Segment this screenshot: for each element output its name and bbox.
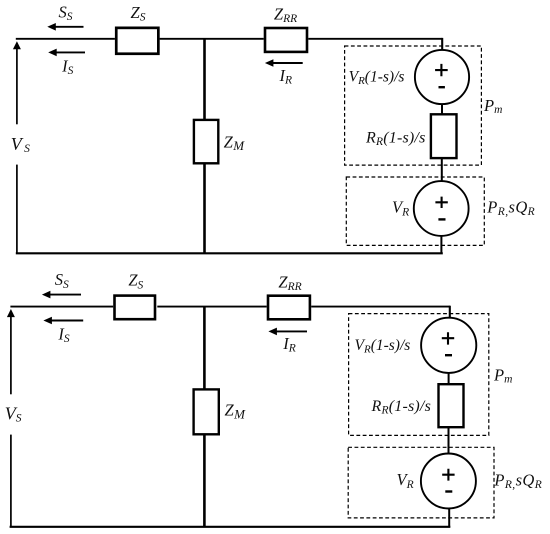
source plus sign (circuit 1 upper) [435,64,448,76]
dashed box P_R,sQ_R (circuit 1) [346,177,484,245]
wire top bus segment right (circuit 1) [308,38,442,40]
resistor R_R(1-s)/s box (circuit 1) [431,114,457,158]
impedance Z_M box (circuit 1) [194,120,218,163]
impedance Z_S box (circuit 1) [116,28,158,54]
wire top bus segment left (circuit 2) [10,306,113,308]
svg-text:VR(1-s)/s: VR(1-s)/s [349,68,405,87]
dashed box P_m (circuit 1) [345,46,482,165]
arrow S_S (circuit 1) [47,23,83,31]
source V_S arrow (circuit 2) [7,309,15,394]
impedance Z_RR box (circuit 2) [268,296,310,320]
arrow I_R (circuit 2) [268,328,307,336]
wire magnetizing branch lower (circuit 2) [203,435,206,527]
wire bottom bus (circuit 1) [16,252,443,254]
wire top bus segment left (circuit 1) [16,38,115,40]
wire resistor to source V_R (circuit 1) [441,159,443,182]
source plus sign (circuit 2 upper) [442,332,454,344]
wire magnetizing branch upper (circuit 2) [203,307,206,390]
source minus sign (circuit 1 upper) [439,86,445,88]
resistor R_R(1-s)/s box (circuit 2) [439,384,464,427]
impedance Z_S box (circuit 2) [115,296,156,320]
wire corner drop to source (circuit 1) [441,38,443,51]
impedance Z_RR box (circuit 1) [265,28,307,52]
wire source V_R to bottom bus (circuit 2) [448,509,450,528]
wire source to resistor (circuit 2) [448,373,450,385]
wire source to resistor (circuit 1) [441,104,443,114]
source minus sign (circuit 1 lower) [438,218,445,220]
wire magnetizing branch lower (circuit 1) [203,164,206,253]
svg-text:RR(1-s)/s: RR(1-s)/s [365,129,426,148]
arrow I_S (circuit 2) [43,317,83,325]
wire bottom bus (circuit 2) [10,526,451,528]
source V_S arrow (circuit 1) [13,41,21,124]
wire source V_R to bottom bus (circuit 1) [440,236,442,254]
wire left branch lower (circuit 2) [10,435,12,527]
source minus sign (circuit 2 upper) [445,354,452,356]
wire left branch lower (circuit 1) [16,165,18,254]
arrow S_S (circuit 2) [42,291,81,299]
wire top bus segment middle (circuit 2) [157,306,266,308]
source plus sign (circuit 2 lower) [442,469,454,481]
source minus sign (circuit 2 lower) [445,490,452,492]
source V_R circle (circuit 2) [421,454,476,509]
dashed box P_m (circuit 2) [349,314,489,436]
arrow I_S (circuit 1) [48,49,85,57]
dashed box P_R,sQ_R (circuit 2) [348,447,494,518]
arrow I_R (circuit 1) [265,59,303,67]
svg-text:RR(1-s)/s: RR(1-s)/s [371,398,432,417]
impedance Z_M box (circuit 2) [194,389,219,434]
wire top bus segment middle (circuit 1) [160,38,264,40]
source V_R circle (circuit 1) [414,181,469,236]
source plus sign (circuit 1 lower) [435,197,447,208]
wire top bus segment right (circuit 2) [311,306,450,308]
svg-text:VR(1-s)/s: VR(1-s)/s [355,337,411,356]
wire resistor to source V_R (circuit 2) [448,427,450,454]
source V_R(1-s)/s circle (circuit 2) [421,318,476,373]
wire corner drop to source (circuit 2) [449,306,451,319]
source V_R(1-s)/s circle (circuit 1) [415,50,469,104]
wire magnetizing branch upper (circuit 1) [203,39,206,120]
